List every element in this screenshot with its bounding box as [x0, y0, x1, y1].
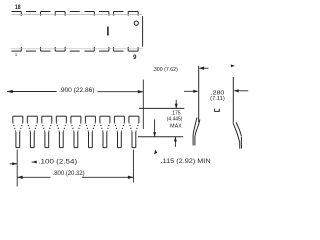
front view: lead 8: [114, 115, 124, 117]
top view: center mold mark line: [107, 27, 109, 36]
svg-text:(4.445): (4.445): [167, 117, 183, 123]
end view: left lead flare: [193, 118, 197, 135]
dimension: overall length .900 (22.86): [7, 91, 56, 93]
top view: pin 1 index dimple circle: [134, 21, 138, 25]
dimension: row spacing .300 (7.62): [199, 67, 204, 70]
svg-text:MAX: MAX: [170, 123, 182, 129]
seating plane line: [138, 136, 183, 138]
arrow onto reference line: [175, 100, 177, 108]
top view: pin 1 tab: [11, 50, 21, 52]
top view: pin 8 tab: [114, 50, 124, 52]
arrow up to seating plane from below: [174, 137, 176, 147]
end view: right lead tip: [239, 142, 241, 149]
top view: pin 14 tab: [70, 11, 80, 13]
end view: right lead flare: [236, 122, 241, 136]
svg-text:.300 (7.62): .300 (7.62): [152, 67, 178, 73]
end view: body left side: [198, 66, 200, 123]
small arrowhead mark: [154, 150, 157, 155]
top view: faint body top edge: [11, 14, 143, 16]
arrow down onto seating plane: [154, 120, 156, 137]
top view: pin 3 tab: [41, 50, 51, 52]
top view: pin 15 tab: [55, 11, 65, 13]
front view: lead 6: [85, 115, 95, 117]
top view: pin 11 tab: [114, 11, 124, 13]
front view: lead 3: [42, 115, 52, 117]
svg-text:.100 (2.54): .100 (2.54): [38, 159, 77, 166]
svg-text:.115 (2.92) MIN: .115 (2.92) MIN: [161, 158, 211, 165]
mold mark at body bottom center: [215, 109, 220, 112]
reference line: top of seating plane offset: [139, 107, 184, 109]
dimension: body width across end view: [184, 90, 194, 92]
top view: pin 18 tab: [11, 11, 21, 13]
front view: lead 5: [71, 115, 81, 117]
top view: pin 5 tab: [70, 50, 80, 52]
svg-text:18: 18: [15, 4, 21, 11]
front view: lead 1: [13, 115, 23, 117]
top view: faint body bottom edge: [11, 48, 143, 50]
top view: pin 12 tab: [99, 11, 109, 13]
front view: lead 7: [100, 115, 110, 117]
end view: body right side: [232, 77, 234, 122]
top view: body right end edge: [142, 16, 144, 47]
dimension: lead pitch .100 (2.54): [16, 150, 18, 187]
front view: lead 4: [56, 115, 66, 117]
dimension: lead span .800 (20.32): [132, 150, 134, 183]
top view: pin 9 tab: [128, 50, 138, 52]
top view: pin 7 tab: [99, 50, 109, 52]
svg-text:.900 (22.86): .900 (22.86): [59, 88, 95, 94]
svg-text:(7.11): (7.11): [210, 96, 225, 102]
end view: left lead tip: [192, 135, 194, 146]
extension line from body right end: [142, 80, 144, 129]
top view: pin 4 tab: [55, 50, 65, 52]
svg-text:1: 1: [15, 52, 18, 57]
top view: pin 16 tab: [41, 11, 51, 13]
top view: pin 2 tab: [26, 50, 36, 52]
front view: lead 2: [27, 115, 37, 117]
front view: lead 9: [129, 115, 139, 117]
top view: pin 6 tab: [84, 50, 94, 52]
top view: pin 17 tab: [26, 11, 36, 13]
svg-text:.800 (20.32): .800 (20.32): [53, 170, 85, 177]
top view: pin 13 tab: [84, 11, 94, 13]
top view: pin 10 tab: [128, 11, 138, 13]
